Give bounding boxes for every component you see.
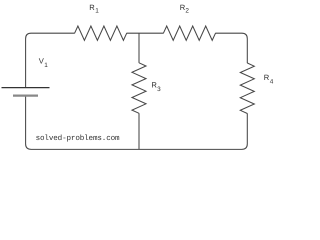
label V1 xyxy=(39,56,49,69)
wire: R3 bottom pin down to bottom return wire junction xyxy=(138,113,140,149)
wire: R2 right end, top-right rounded corner, down to R4 top pin xyxy=(215,33,247,63)
resistor R1 zigzag body xyxy=(75,26,127,40)
battery V1 short negative plate xyxy=(13,94,38,96)
battery V1 long positive plate xyxy=(2,87,50,89)
label R2 xyxy=(180,3,190,14)
resistor R2 zigzag body xyxy=(163,26,215,40)
wire: R4 bottom pin, bottom-right rounded corner, bottom return run, bottom-left rounded corner, up to battery - plate xyxy=(26,96,248,150)
resistor R3 zigzag body xyxy=(132,63,146,114)
svg-text:1: 1 xyxy=(44,62,48,69)
label R3 xyxy=(151,81,161,93)
wire: R1 right end through node A (junction with R3) to R2 left end xyxy=(127,32,164,34)
svg-text:2: 2 xyxy=(185,8,189,15)
svg-text:1: 1 xyxy=(95,8,99,15)
resistor R4 zigzag body xyxy=(240,63,254,114)
wire: node A junction drop from top wire to R3 top pin xyxy=(138,33,140,63)
wire: left branch from battery + plate up, top-left rounded corner, top run to R1 xyxy=(26,33,75,87)
label R1 xyxy=(89,3,99,14)
svg-text:3: 3 xyxy=(157,86,161,93)
label R4 xyxy=(264,73,274,86)
svg-text:4: 4 xyxy=(270,79,274,86)
svg-text:solved-problems.com: solved-problems.com xyxy=(36,134,120,143)
